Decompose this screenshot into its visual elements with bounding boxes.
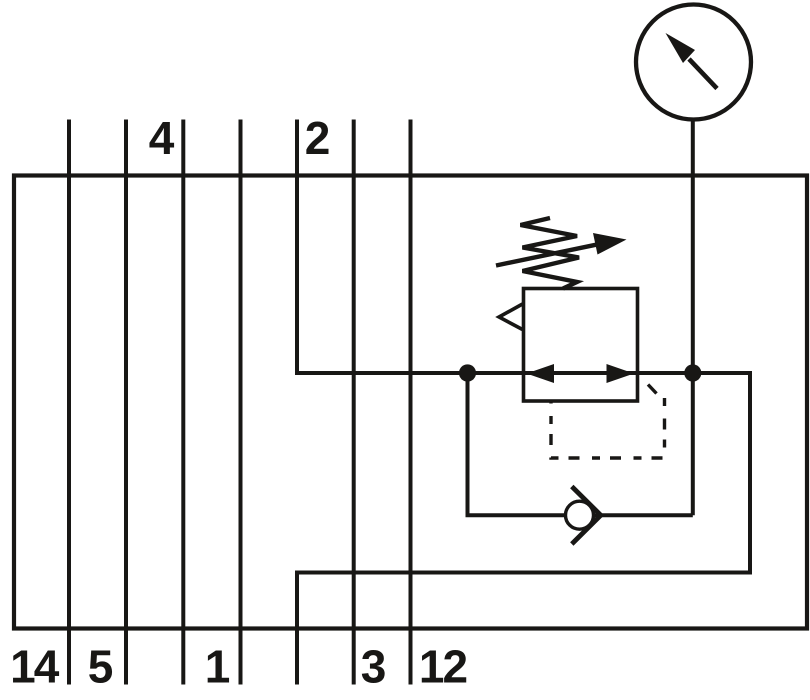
spring adjustment arrow	[496, 233, 627, 266]
regulator flow arrow left	[527, 364, 555, 383]
svg-text:2: 2	[305, 112, 331, 164]
pressure regulator body	[524, 289, 638, 402]
wire: port line 5	[124, 120, 128, 685]
wire: port line 1	[239, 120, 243, 685]
wire: port line 12	[409, 120, 413, 685]
gauge needle	[666, 33, 718, 89]
svg-text:12: 12	[419, 641, 467, 693]
node: regulator inlet junction	[459, 364, 476, 381]
regulator relieving triangle	[499, 304, 523, 330]
svg-text:1: 1	[205, 641, 231, 693]
check valve C1	[566, 487, 601, 545]
wire: port line 3	[352, 120, 356, 685]
svg-text:3: 3	[361, 641, 387, 693]
pilot line (dashed): diagonal dash	[648, 385, 657, 394]
pilot line (dashed): loop to regulator bottom	[551, 398, 665, 458]
manifold block frame	[14, 176, 807, 629]
svg-text:5: 5	[88, 641, 114, 693]
node: regulator outlet junction	[684, 364, 701, 381]
svg-text:4: 4	[149, 112, 175, 164]
wire: port line 2 supply loop	[297, 120, 750, 685]
wire: port line 14	[67, 120, 71, 685]
wire: gauge line down to check valve line	[691, 119, 695, 515]
svg-text:14: 14	[10, 641, 60, 693]
regulator flow arrow right	[607, 364, 635, 383]
wire: left branch to check valve	[468, 373, 693, 515]
pressure gauge	[636, 5, 751, 120]
wire: port line 4	[181, 120, 185, 685]
regulator adjustment spring	[521, 218, 580, 289]
